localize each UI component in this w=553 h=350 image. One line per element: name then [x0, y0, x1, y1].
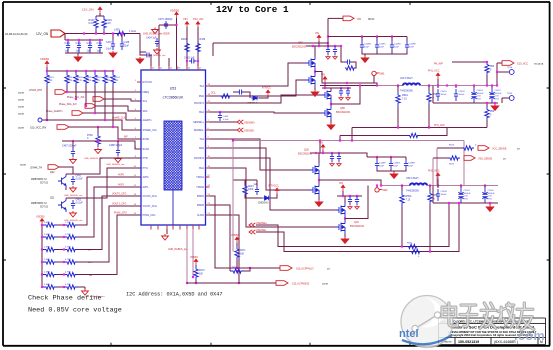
svg-text:S10_KCPFAULT: S10_KCPFAULT — [296, 268, 314, 271]
wire ITH row — [62, 141, 141, 149]
svg-text:GND_RGBUS_vtts: GND_RGBUS_vtts — [64, 194, 83, 197]
ground Q58 — [330, 120, 332, 123]
svg-text:Check Phase define: Check Phase define — [28, 295, 101, 303]
svg-text:S10_KCPW0SS: S10_KCPW0SS — [292, 283, 310, 286]
capacitor C408 1uF — [66, 40, 70, 53]
svg-text:VIN: VIN — [319, 142, 323, 145]
resistor R471 10K — [236, 243, 238, 246]
pin 23 PWM2 — [206, 204, 210, 206]
svg-text:R424: R424 — [115, 77, 121, 79]
resistor on ring A — [406, 244, 419, 248]
wire to filter caps — [64, 34, 66, 41]
svg-text:C149D: C149D — [394, 44, 401, 46]
test point TP54 — [497, 71, 509, 73]
svg-text:3B,4A,6A: 3B,4A,6A — [534, 63, 544, 66]
svg-text:VOUT1_CFG: VOUT1_CFG — [143, 205, 157, 208]
ladder row 225 — [41, 224, 43, 226]
wire after L54 — [420, 85, 498, 87]
svg-text:22uF: 22uF — [393, 166, 399, 168]
net VCC_SENSE — [437, 147, 462, 149]
power VIN arrow — [98, 7, 102, 13]
pad stub to bottom — [172, 190, 174, 225]
svg-text:2.5V: 2.5V — [488, 196, 493, 198]
svg-text:C1491: C1491 — [441, 91, 448, 93]
svg-text:R422: R422 — [97, 77, 103, 79]
svg-text:C149C: C149C — [379, 44, 386, 46]
svg-text:BOOST1: BOOST1 — [194, 102, 204, 105]
resistor R54 0 — [428, 86, 430, 92]
svg-text:Q28: Q28 — [304, 149, 309, 152]
drain rail phase2 — [310, 152, 345, 154]
svg-text:SCL: SCL — [211, 92, 216, 95]
diode D44 CMDSH-3 — [262, 196, 271, 200]
svg-text:GND_RGBUS_vtts VDDR: GND_RGBUS_vtts VDDR — [143, 33, 170, 36]
svg-text:P12_GN: P12_GN — [193, 17, 203, 21]
ground bank2 — [489, 203, 491, 205]
wire output to port — [496, 63, 498, 86]
capacitor C444 1uF — [255, 186, 259, 195]
svg-text:C1501: C1501 — [464, 190, 471, 192]
ground below IC pad — [166, 229, 168, 234]
capacitor C1501 1000uF — [460, 186, 462, 189]
capacitor C1491 100uF — [437, 86, 439, 89]
svg-text:GND_RGBUS_vtts: GND_RGBUS_vtts — [106, 163, 125, 166]
capacitor C461 0.01uF — [71, 200, 75, 209]
svg-text:4.7K: 4.7K — [78, 80, 83, 82]
resistor R434 — [102, 16, 106, 31]
svg-text:FREQ: FREQ — [143, 91, 150, 94]
svg-text:AVP1: AVP1 — [143, 186, 150, 189]
wire resistor tops — [96, 15, 104, 17]
svg-text:22uF: 22uF — [379, 47, 385, 49]
pin 6 SENSE1- — [206, 129, 210, 131]
svg-text:ALERTn: ALERTn — [143, 119, 153, 122]
svg-text:TP55: TP55 — [507, 93, 513, 95]
wire VDDR horizontal — [159, 24, 177, 26]
svg-text:C461: C461 — [76, 200, 82, 202]
ground C434 — [154, 48, 161, 54]
svg-text:LTC3866EUK: LTC3866EUK — [163, 96, 184, 100]
wire TG1 to Q57 gate — [210, 63, 306, 86]
wire Q58 node to output — [331, 86, 360, 105]
bank1 rails — [432, 86, 434, 104]
capacitor C149B 22uF — [361, 37, 363, 42]
svg-text:GND_RGBUS_vtts: GND_RGBUS_vtts — [147, 54, 166, 57]
svg-text:7mO: 7mO — [477, 98, 482, 100]
svg-text:Need 0.85V core voltage: Need 0.85V core voltage — [28, 307, 122, 315]
ground input caps — [364, 54, 366, 56]
svg-text:22uF: 22uF — [394, 47, 400, 49]
svg-text:7.15: 7.15 — [406, 199, 411, 202]
ground Q22 — [65, 188, 67, 190]
svg-text:C43x: C43x — [97, 42, 103, 45]
svg-text:2.4RK: 2.4RK — [44, 284, 51, 286]
capacitor C434 1uF — [155, 38, 159, 47]
svg-text:PHAS_CFG: PHAS_CFG — [114, 212, 127, 215]
svg-text:R436: R436 — [200, 38, 206, 41]
svg-text:ntel: ntel — [399, 328, 419, 340]
svg-text:2.4RK: 2.4RK — [44, 272, 51, 274]
svg-text:LTM4X_TH: LTM4X_TH — [30, 167, 42, 170]
resistor R55A 7.15 — [401, 186, 403, 192]
watermark chinese characters — [442, 303, 457, 326]
wire 12V to IC region — [139, 34, 141, 53]
svg-text:10uF: 10uF — [106, 48, 112, 51]
svg-text:ITH1: ITH1 — [143, 167, 149, 170]
svg-text:VOUT1_CFG: VOUT1_CFG — [112, 203, 126, 206]
svg-text:VIN: VIN — [357, 18, 361, 21]
svg-text:22uF: 22uF — [409, 47, 415, 49]
wire BOOST2 — [210, 158, 336, 210]
svg-text:I2C Address: 0X1A,0X5D and 0X4: I2C Address: 0X1A,0X5D and 0X47 — [126, 292, 223, 298]
ground ladder — [84, 287, 86, 289]
svg-text:1uF: 1uF — [65, 50, 70, 53]
svg-text:BSC0911ND: BSC0911ND — [350, 225, 364, 228]
capacitor C148G 22uF — [390, 157, 392, 160]
svg-text:C41x: C41x — [76, 42, 82, 45]
svg-text:R471: R471 — [240, 250, 246, 252]
svg-text:SOT-23: SOT-23 — [40, 183, 49, 185]
resistor R55 0 — [429, 186, 431, 192]
svg-text:RUN1: RUN1 — [143, 148, 150, 151]
svg-text:R420: R420 — [78, 77, 84, 79]
svg-text:C433 1uF: C433 1uF — [184, 57, 195, 60]
svg-text:3A,3B,4A,6A,8A,9C: 3A,3B,4A,6A,8A,9C — [5, 32, 28, 36]
bottom pin 1 — [150, 225, 152, 230]
svg-text:SENSE1-: SENSE1- — [194, 129, 204, 132]
svg-text:VIN: VIN — [321, 74, 325, 77]
pin 15 PHAS_CFG — [137, 214, 141, 216]
input port 12V_ON — [51, 30, 65, 37]
pin 4 SDA — [137, 110, 141, 112]
resistor R54A 7.15 — [397, 86, 399, 92]
capacitor on BG1 wire — [219, 111, 221, 113]
svg-text:12V to Core 1: 12V to Core 1 — [216, 4, 289, 15]
svg-text:10K: 10K — [240, 254, 245, 256]
light bus horizontal — [233, 140, 464, 142]
net SHARE_CLK — [38, 118, 42, 122]
svg-text:PH1_VCC: PH1_VCC — [428, 70, 440, 73]
bottom pin 6 — [186, 225, 188, 230]
probe SW2 — [376, 186, 378, 189]
svg-text:1000uF: 1000uF — [464, 193, 472, 195]
capacitor C149C 22uF — [376, 37, 378, 42]
svg-text:AVP0: AVP0 — [118, 174, 125, 177]
pin 3 SW2 — [206, 147, 210, 149]
bottom pin 8 — [198, 225, 200, 230]
svg-text:1uF: 1uF — [87, 50, 92, 53]
capacitor bypass q20 a — [348, 196, 352, 205]
wire TG2 to Q28 gate — [210, 139, 310, 170]
svg-text:R419: R419 — [49, 77, 55, 79]
svg-text:ShaRE_CLK: ShaRE_CLK — [112, 117, 126, 120]
svg-text:12V_ON: 12V_ON — [36, 32, 49, 36]
capacitor C470 1500pF — [164, 21, 168, 29]
svg-text:BSC0911ND: BSC0911ND — [336, 111, 350, 114]
pin 27 TSNS1 — [206, 176, 210, 178]
svg-text:VSENSE-: VSENSE- — [244, 130, 255, 133]
svg-text:3B,6C: 3B,6C — [368, 19, 375, 21]
pin 12 AVP1 — [137, 186, 141, 188]
svg-text:SW2: SW2 — [199, 147, 205, 150]
resistor R420 4.7K — [75, 70, 77, 72]
resistor R424 10K — [112, 70, 114, 72]
svg-text:VOUT0_CFG: VOUT0_CFG — [143, 195, 157, 198]
svg-text:SW1: SW1 — [379, 72, 385, 76]
wire col47 down — [46, 86, 48, 120]
capacitor bypass q28 b — [337, 153, 341, 162]
wire 12V bus to phase1 — [213, 42, 328, 44]
resistor R414 51K — [66, 70, 68, 72]
svg-text:0.01uF: 0.01uF — [76, 179, 84, 181]
svg-text:C1498: C1498 — [441, 191, 448, 193]
svg-text:2.5V: 2.5V — [464, 196, 469, 198]
svg-text:ITH0: ITH0 — [143, 157, 149, 160]
svg-text:S10_VCC_RN: S10_VCC_RN — [30, 127, 46, 130]
ground Q28 — [318, 197, 320, 200]
svg-text:PH1_AVP: PH1_AVP — [434, 124, 445, 127]
svg-text:2.4RK: 2.4RK — [44, 259, 51, 261]
svg-text:WP: WP — [124, 137, 128, 139]
wire pin 169 stub — [168, 58, 170, 70]
port S10_KCPFAULT — [237, 267, 280, 269]
svg-text:51K: 51K — [69, 80, 73, 82]
capacitor C1502 1000uF — [484, 186, 486, 189]
svg-text:R561: R561 — [407, 243, 413, 245]
resistor R435 series — [114, 31, 128, 35]
cap bank C408-C411 rails — [65, 39, 103, 41]
mosfet Q20 low — [335, 220, 345, 234]
top pin 6 — [197, 66, 199, 70]
svg-text:C488 100pF: C488 100pF — [109, 144, 123, 147]
svg-text:SENSE1+: SENSE1+ — [193, 121, 204, 124]
svg-text:SOT-23: SOT-23 — [40, 207, 49, 209]
phase2 caps gnd — [377, 169, 406, 171]
wire PGD to Q57 lo gate — [210, 80, 306, 96]
capacitor C441 0.01uF — [71, 176, 75, 185]
svg-text:SHARE_CLK: SHARE_CLK — [143, 129, 158, 132]
svg-text:10K: 10K — [88, 80, 92, 82]
wire bottom pins mauve — [186, 229, 188, 283]
pin 3 SCL — [137, 100, 141, 102]
svg-text:C149B: C149B — [364, 44, 371, 46]
svg-text:R444: R444 — [248, 186, 254, 188]
svg-text:BG1: BG1 — [199, 111, 204, 114]
svg-text:C149E: C149E — [409, 44, 416, 46]
svg-text:C434 1uF: C434 1uF — [146, 37, 157, 40]
pin 7 SENSE1+ — [206, 121, 210, 123]
svg-text:C1494: C1494 — [477, 90, 484, 92]
test point TP55 — [502, 97, 509, 99]
svg-text:C437: C437 — [106, 41, 112, 44]
svg-text:SCL: SCL — [143, 100, 148, 103]
wire Q20 node to output — [345, 186, 368, 219]
svg-text:VIN: VIN — [183, 17, 188, 21]
pin 35 BOOST2 — [206, 157, 210, 159]
wire SW2 net — [210, 148, 310, 190]
net VSS_SENSE — [433, 157, 448, 159]
svg-text:VSENSE+: VSENSE+ — [244, 122, 256, 125]
pin 8 RUN1 — [137, 148, 141, 150]
power VIN phase2 feed — [319, 141, 321, 154]
resistor R423 10K — [104, 70, 106, 72]
svg-text:10K: 10K — [199, 274, 204, 276]
svg-text:C487 2200pF: C487 2200pF — [62, 145, 77, 148]
svg-text:C1502: C1502 — [488, 190, 495, 192]
bottom pin 7 — [192, 225, 194, 230]
svg-text:2.4RK: 2.4RK — [44, 234, 51, 236]
svg-text:7443330056: 7443330056 — [406, 191, 419, 193]
svg-text:SW2: SW2 — [382, 188, 388, 192]
input cap bottom rail — [362, 51, 407, 54]
drain rail phase1b — [322, 87, 351, 89]
svg-text:VDD50: VDD50 — [40, 57, 49, 61]
svg-text:2.4RK: 2.4RK — [44, 222, 51, 224]
svg-text:C441: C441 — [76, 176, 82, 178]
svg-text:INTVCC1: INTVCC1 — [268, 185, 279, 188]
svg-text:10K: 10K — [49, 80, 53, 82]
svg-text:4.75K: 4.75K — [65, 247, 71, 249]
capacitor bypass q57 b — [333, 46, 337, 55]
flags VSENSE at IC — [210, 121, 238, 123]
svg-text:1000uF: 1000uF — [477, 93, 485, 95]
pin 2 FREQ — [137, 91, 141, 93]
op-amp U53 LTC3866EUK body — [141, 70, 206, 225]
wire BOOST1 — [210, 95, 325, 103]
pin 10 ITH1 — [137, 167, 141, 169]
pin 14 VOUT1_CFG — [137, 205, 141, 207]
capacitor C439 0.1uF — [144, 53, 152, 58]
svg-text:1000uF: 1000uF — [495, 93, 503, 95]
svg-text:PH2_VCC: PH2_VCC — [428, 170, 440, 173]
phase2 input caps — [367, 156, 406, 158]
svg-text:7mO: 7mO — [495, 98, 500, 100]
capacitor C4011 1uF — [98, 40, 102, 53]
capacitor C1492 100uF — [455, 86, 457, 89]
svg-text:C148H: C148H — [408, 163, 415, 165]
svg-text:100uF: 100uF — [441, 194, 448, 196]
capacitor bypass q58 a — [339, 88, 343, 96]
svg-text:BOOST2: BOOST2 — [194, 157, 204, 160]
wire after L55 — [427, 185, 498, 187]
svg-text:VDD50: VDD50 — [170, 9, 179, 13]
pin 38 PGD — [206, 95, 210, 97]
resistor R433 — [185, 41, 189, 54]
mosfet Q57 high — [305, 56, 315, 70]
pin 33 TG1 — [206, 85, 210, 87]
resistor R782 0 — [97, 126, 99, 128]
mosfet Q28 high — [309, 163, 319, 177]
pin 5 ALERTn — [137, 119, 141, 121]
svg-text:L55 0.56uH: L55 0.56uH — [406, 177, 419, 180]
ground below cap bank — [77, 53, 79, 55]
pull-up bus — [47, 70, 113, 72]
svg-text:0.00: 0.00 — [89, 21, 95, 25]
resistor on ring B — [409, 249, 422, 253]
mosfet Q20 high — [335, 203, 345, 217]
capacitor C149E 22uF — [406, 37, 408, 42]
ground C487 — [70, 158, 77, 164]
wire ring VSENSE+ — [249, 223, 255, 227]
port S10_VCC — [502, 61, 514, 66]
svg-text:TG1: TG1 — [199, 85, 204, 88]
svg-text:MMBT3906-7-F: MMBT3906-7-F — [31, 179, 48, 181]
svg-text:4B,8B: 4B,8B — [322, 284, 328, 286]
wire BG2 — [210, 168, 336, 227]
ladder row 249.5 — [41, 248, 43, 250]
svg-text:C1497: C1497 — [495, 90, 502, 92]
svg-text:GND_RGBUS_pwr: GND_RGBUS_pwr — [168, 248, 188, 251]
probe SW1 — [373, 75, 375, 83]
svg-text:TP54: TP54 — [507, 67, 513, 69]
pin 32 BG1 — [206, 111, 210, 113]
mosfet Q57 low — [305, 73, 315, 87]
svg-text:RUN0: RUN0 — [143, 138, 150, 141]
svg-text:U53: U53 — [170, 87, 177, 91]
svg-text:3A,8B: 3A,8B — [18, 106, 24, 109]
resistor R50 bottom — [486, 103, 488, 107]
svg-text:7mO: 7mO — [464, 198, 469, 200]
gnd flag VDDR — [152, 28, 159, 34]
capacitor C433 bridging — [189, 59, 197, 64]
capacitor C148F 22uF — [376, 157, 378, 160]
svg-text:3A,8B: 3A,8B — [18, 99, 24, 102]
svg-text:BSC0911ND: BSC0911ND — [292, 46, 306, 49]
resistor R560 sense — [407, 133, 420, 137]
bottom pin 4 — [172, 225, 174, 230]
ladder row 287 — [41, 286, 43, 288]
svg-text:R515: R515 — [449, 164, 455, 166]
svg-text:Q22: Q22 — [50, 172, 55, 174]
resistor R470 10K — [195, 265, 197, 266]
capacitor C149D 22uF — [391, 37, 393, 42]
mosfet Q58 high — [321, 88, 331, 102]
svg-text:Q20: Q20 — [354, 221, 359, 224]
wire resistor bottoms to 12V line — [95, 31, 97, 34]
mosfet Q58 low — [321, 106, 331, 120]
pin 24 PWM1 — [206, 195, 210, 197]
bottom pin 3 — [166, 225, 168, 230]
svg-text:CLKIN: CLKIN — [197, 214, 204, 217]
ground C437 — [109, 51, 117, 57]
svg-text:C40x: C40x — [65, 42, 71, 45]
wire PWM nets below IC — [210, 196, 238, 268]
resistor R436 — [196, 41, 200, 54]
svg-text:22uF: 22uF — [364, 47, 370, 49]
capacitor C437 10uF — [112, 34, 114, 41]
wire BG1 — [210, 112, 325, 113]
wire ring VSENSE- — [249, 230, 255, 234]
svg-text:BG2: BG2 — [199, 167, 204, 170]
drain rail phase1 — [306, 45, 341, 47]
svg-text:3A,8B: 3A,8B — [18, 92, 24, 95]
svg-text:R433: R433 — [181, 38, 187, 41]
ground filled near IC top-left — [136, 57, 144, 63]
svg-text:VOUT0_CFG: VOUT0_CFG — [112, 193, 126, 196]
pin 34 BG2 — [206, 167, 210, 169]
pin 1 EXTVCC — [137, 81, 141, 83]
svg-text:C1492: C1492 — [459, 91, 466, 93]
ground R782 — [95, 148, 102, 154]
svg-text:1uF: 1uF — [76, 50, 81, 53]
power arrow P12 — [196, 22, 200, 28]
svg-text:PWM1: PWM1 — [197, 195, 205, 198]
bank2 rails — [432, 186, 434, 204]
capacitor C1494 1000uF — [473, 86, 475, 89]
wire phase2 output — [381, 185, 410, 187]
svg-text:10K: 10K — [97, 80, 101, 82]
ground bank1 — [494, 103, 496, 104]
